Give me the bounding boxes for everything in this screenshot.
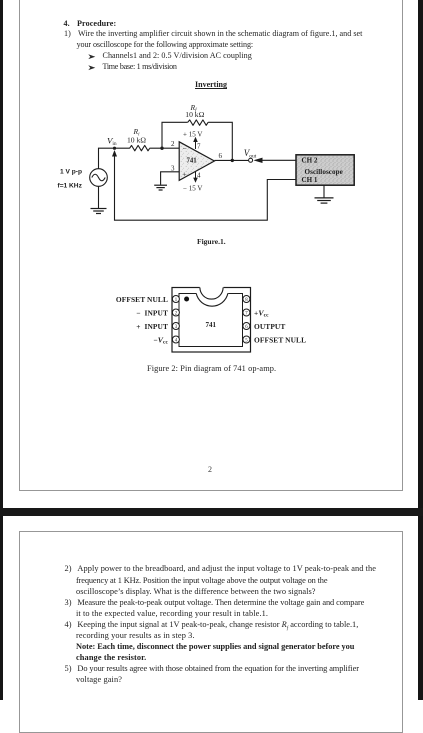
svg-text:f=1 KHz: f=1 KHz	[58, 183, 83, 190]
svg-text:− 15 V: − 15 V	[183, 185, 202, 193]
right black bar	[418, 0, 423, 700]
pin 3	[172, 323, 179, 330]
svg-text:4: 4	[197, 172, 201, 180]
node junction at output	[231, 159, 234, 162]
notch	[200, 286, 224, 288]
svg-text:10 kΩ: 10 kΩ	[127, 135, 146, 144]
node Vout open terminal	[249, 158, 253, 162]
page 2 sheet border	[19, 531, 403, 733]
pin 6	[243, 323, 250, 330]
IC body inner	[179, 294, 243, 347]
IC body outer	[172, 288, 251, 353]
pin 8	[243, 296, 250, 303]
+15V supply arrow	[193, 137, 198, 149]
bullet arrow 1	[88, 54, 97, 60]
page 1 sheet border	[19, 0, 403, 491]
caption Figure 2	[147, 364, 276, 373]
svg-text:+Vcc: +Vcc	[254, 308, 269, 318]
svg-text:741: 741	[206, 321, 217, 329]
svg-text:1 V p-p: 1 V p-p	[60, 169, 82, 176]
svg-text:Oscilloscope: Oscilloscope	[305, 168, 343, 176]
svg-text:CH 2: CH 2	[302, 156, 318, 164]
ground (pin3)	[154, 185, 167, 190]
feedback wire left + Rf + right down to output	[162, 122, 188, 148]
pin 2	[172, 309, 179, 316]
pin 1	[172, 296, 179, 303]
svg-text:OUTPUT: OUTPUT	[254, 322, 285, 331]
node junction at Vin	[113, 147, 116, 150]
wire source to ground	[98, 186, 100, 208]
oscilloscope box	[296, 155, 354, 185]
op-amp U1 741	[179, 142, 214, 181]
page separator band	[0, 508, 423, 516]
svg-text:6: 6	[219, 152, 223, 160]
heading Inverting	[195, 80, 227, 89]
svg-text:741: 741	[187, 158, 198, 165]
wire Ri to op-amp pin 2	[150, 147, 180, 149]
page number 2	[208, 465, 212, 474]
ground (oscilloscope)	[315, 198, 334, 203]
svg-text:− INPUT: − INPUT	[136, 308, 168, 317]
pin 5	[243, 336, 250, 343]
output wire pin6	[215, 159, 249, 161]
left black bar	[0, 0, 3, 700]
svg-text:−: −	[183, 144, 187, 153]
wire oscilloscope ground	[323, 185, 325, 198]
svg-text:Vout: Vout	[244, 148, 257, 160]
Vin probe arrowhead	[112, 150, 117, 157]
svg-text:7: 7	[197, 143, 201, 151]
ground (source)	[91, 209, 107, 214]
svg-text:3: 3	[171, 165, 175, 173]
svg-text:10 kΩ: 10 kΩ	[185, 110, 204, 119]
AC source V1	[90, 169, 108, 187]
svg-text:OFFSET NULL: OFFSET NULL	[254, 335, 306, 344]
pin 1 marker dot	[184, 297, 189, 302]
bullet arrow 2	[88, 65, 97, 71]
svg-text:−Vcc: −Vcc	[153, 335, 168, 345]
svg-text:2: 2	[171, 140, 175, 148]
svg-text:+ 15 V: + 15 V	[183, 131, 202, 139]
svg-text:CH 1: CH 1	[302, 176, 318, 184]
svg-text:+: +	[183, 170, 187, 179]
arrowhead from CH2 to Vout	[253, 158, 262, 163]
svg-text:+ INPUT: + INPUT	[136, 322, 168, 331]
pin 4	[172, 336, 179, 343]
resistor Rf zigzag	[188, 120, 208, 125]
caption Figure.1.	[197, 237, 226, 246]
node junction at pin2	[160, 147, 163, 150]
Vin probe wire down to bottom run	[115, 152, 297, 221]
wire oscilloscope CH2 to Vout arrow line	[261, 159, 296, 161]
labels	[107, 103, 343, 193]
wire source to Ri	[99, 148, 130, 169]
op-amp pin3 wire to ground	[161, 172, 179, 185]
svg-text:Vin: Vin	[107, 135, 117, 147]
resistor Ri zigzag	[130, 145, 150, 150]
pin 7	[243, 309, 250, 316]
svg-text:OFFSET NULL: OFFSET NULL	[116, 295, 168, 304]
feedback wire right segment	[208, 122, 232, 160]
-15V supply arrow	[193, 171, 198, 183]
